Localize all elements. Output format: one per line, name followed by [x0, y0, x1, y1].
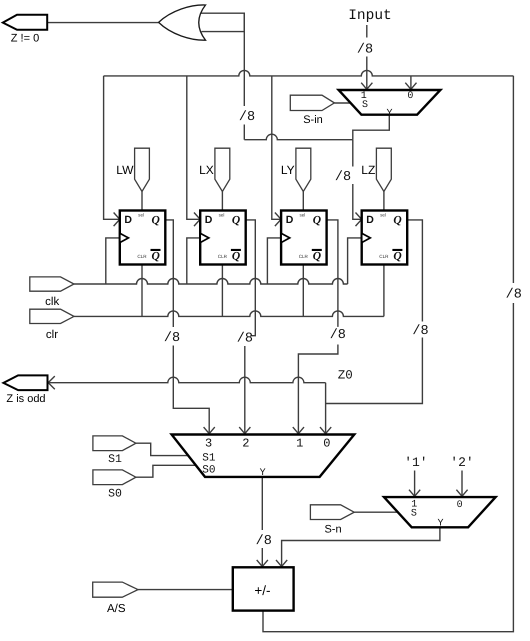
input pin S-in — [290, 95, 334, 126]
svg-text:0: 0 — [457, 500, 463, 511]
wire: S1 select feed — [136, 443, 188, 455]
wire: vertical feedback into OR gate (bus /8), down to node joining mux output — [244, 13, 352, 140]
wire: S0 select feed — [136, 465, 196, 477]
svg-text:2: 2 — [242, 437, 249, 451]
wire: FF3 clock feed — [267, 238, 281, 284]
svg-text:LY: LY — [281, 163, 295, 177]
node Z0 label — [338, 368, 353, 382]
wire: FF4 clock feed — [348, 238, 362, 284]
wire: D feed FF4 (LZ) from mux-output node — [353, 140, 363, 226]
wire: S-in mux output Y down-left to LZ node — [353, 115, 390, 140]
register LX (D flip-flop with load, box) — [200, 211, 246, 265]
wire: FF1 clock feed — [106, 238, 120, 284]
register LX clock wedge — [200, 233, 209, 242]
input pin LZ (load enable) — [361, 148, 391, 191]
wire: D feed FF1 (LW) — [104, 76, 122, 226]
svg-text:Z != 0: Z != 0 — [11, 33, 39, 45]
wire: S-n pin to mux select — [354, 511, 398, 513]
Input port label — [348, 8, 392, 24]
input pin A/S — [93, 582, 138, 615]
input pin S-n — [310, 505, 354, 536]
bus label /8 on FF4 Q — [412, 324, 428, 339]
wire: FF2 clear feed — [221, 265, 223, 317]
bus label /8 on mux output — [256, 534, 272, 549]
svg-text:Q: Q — [232, 215, 240, 227]
wire: n-mux output Y to adder — [276, 527, 440, 568]
wire: clr bus with hops — [74, 311, 384, 316]
wire: A/S pin to adder — [138, 589, 233, 591]
or-gate U1 (8-input NOR-style Z!=0 detector, pointing left) — [159, 5, 206, 40]
bus label /8 on FF2 Q — [237, 332, 253, 347]
svg-text:sel: sel — [219, 213, 225, 218]
svg-text:S1: S1 — [202, 452, 216, 464]
mux U2 (2:1, S-in) trapezoid — [339, 90, 441, 115]
wire: LW pin to register sel input — [141, 192, 143, 211]
svg-text:+/-: +/- — [254, 583, 270, 598]
mux U3 (4:1 register-select) trapezoid — [172, 435, 355, 477]
register LW clock wedge — [120, 233, 129, 242]
svg-text:'2': '2' — [450, 455, 473, 470]
svg-text:Z0: Z0 — [338, 368, 353, 382]
svg-text:Y: Y — [437, 519, 443, 530]
register LX pin labels — [205, 213, 241, 263]
svg-text:/8: /8 — [412, 324, 428, 339]
svg-text:S-n: S-n — [324, 524, 341, 536]
bus label /8 on LZ D feed — [335, 170, 351, 185]
svg-text:Q: Q — [393, 250, 401, 262]
input pin LX (load enable) — [199, 148, 230, 191]
svg-text:S: S — [411, 509, 417, 520]
wire: FF4 Q net (Z0) to Z-is-odd line and mux input 0 — [320, 220, 422, 435]
svg-text:LZ: LZ — [361, 163, 375, 177]
svg-text:clk: clk — [45, 296, 59, 308]
wire: Input pin stub — [366, 25, 368, 38]
wire: D feed FF3 (LY) — [272, 76, 283, 226]
wire: LX pin to register sel input — [221, 192, 223, 211]
svg-text:S: S — [362, 100, 368, 111]
svg-text:LX: LX — [199, 163, 214, 177]
wire: clk bus with hops — [74, 279, 348, 285]
svg-text:Z is odd: Z is odd — [6, 393, 45, 405]
wire: Z != 0 output net (OR gate output to pin) — [47, 22, 158, 24]
svg-text:1: 1 — [296, 437, 303, 451]
wire: FF3 clear feed — [302, 265, 304, 317]
svg-text:S-in: S-in — [303, 114, 323, 126]
svg-text:CLR: CLR — [299, 254, 309, 259]
svg-text:Q: Q — [313, 250, 321, 262]
register LY pin labels — [286, 213, 322, 263]
wire: S-in pin to mux select — [334, 102, 350, 104]
register LW pin labels — [124, 213, 160, 263]
output pin Z != 0 — [3, 15, 47, 45]
wire: FF2 clock feed — [187, 238, 200, 284]
svg-text:0: 0 — [323, 437, 330, 451]
svg-text:/8: /8 — [330, 328, 346, 343]
register LY (D flip-flop with load, box) — [281, 211, 327, 265]
input pin S1 — [93, 436, 136, 466]
svg-text:D: D — [286, 214, 294, 226]
svg-text:LW: LW — [116, 163, 134, 177]
mux U2 pin labels — [361, 91, 414, 119]
svg-text:/8: /8 — [256, 534, 272, 549]
svg-text:clr: clr — [46, 329, 58, 341]
svg-text:A/S: A/S — [107, 603, 126, 615]
input pin S0 — [93, 470, 136, 501]
svg-text:Q: Q — [151, 215, 159, 227]
svg-text:/8: /8 — [237, 332, 253, 347]
svg-text:Input: Input — [348, 8, 392, 24]
register LZ (D flip-flop with load, box) — [362, 211, 408, 265]
wire: FF3 Q net to mux input 1 — [293, 220, 338, 435]
bus label /8 on FF1 Q — [164, 331, 180, 346]
mux U4 pin labels — [411, 500, 463, 530]
constant '1' — [404, 455, 427, 470]
svg-text:CLR: CLR — [137, 254, 147, 259]
svg-text:0: 0 — [407, 91, 413, 102]
svg-text:Y: Y — [260, 468, 266, 479]
wire: FF1 clear feed — [141, 265, 143, 317]
wire: FF2 Q net to mux input 2 — [239, 220, 255, 435]
svg-text:sel: sel — [380, 213, 386, 218]
wire: LZ pin to register sel input — [383, 192, 385, 211]
input pin clk — [30, 277, 74, 308]
svg-text:CLR: CLR — [218, 254, 228, 259]
svg-text:sel: sel — [299, 213, 305, 218]
wire: constant '2' feed — [456, 471, 467, 498]
input pin LY (load enable) — [281, 148, 311, 191]
wire: adder output feedback (bottom and right side) — [263, 76, 513, 632]
wire: Input feed into mux input 1 with arrowhead — [361, 57, 372, 91]
svg-text:/8: /8 — [335, 170, 351, 185]
wire: top distribution line y=76 (+/- result bus) — [104, 70, 514, 75]
svg-text:Q: Q — [151, 250, 159, 262]
svg-text:S0: S0 — [202, 465, 215, 477]
svg-text:/8: /8 — [239, 110, 255, 125]
bus label /8 on OR-gate vertical — [239, 110, 255, 125]
output pin Z is odd — [3, 375, 47, 404]
svg-text:D: D — [124, 214, 132, 226]
wire: Z is odd line with arrowhead into output pin — [47, 376, 326, 389]
svg-text:S0: S0 — [108, 488, 122, 501]
register LZ pin labels — [366, 213, 402, 263]
wire: feedback into S-in mux input 0 with arrowhead — [405, 76, 416, 91]
bus label /8 on FF3 Q — [330, 328, 346, 343]
svg-text:S1: S1 — [108, 453, 122, 466]
svg-text:/8: /8 — [506, 287, 522, 302]
svg-text:3: 3 — [205, 437, 212, 451]
register LZ clock wedge — [362, 233, 371, 242]
register LY clock wedge — [281, 233, 290, 242]
wire: D feed FF2 (LX) — [187, 76, 202, 226]
mux U4 (2:1 increment select, S-n) trapezoid — [384, 497, 496, 527]
svg-text:D: D — [366, 214, 374, 226]
adder/subtractor U5 (+/-) — [233, 567, 294, 610]
register LW (D flip-flop with load, box) — [120, 211, 166, 265]
wire: FF1 Q net to mux input 3 — [165, 220, 215, 435]
input pin clr — [30, 309, 74, 341]
wire: LY pin to register sel input — [302, 192, 304, 211]
svg-text:Q: Q — [313, 215, 321, 227]
svg-text:/8: /8 — [164, 331, 180, 346]
svg-text:sel: sel — [138, 213, 144, 218]
wire: big mux output Y to adder — [257, 477, 268, 568]
mux U3 input labels 3 2 1 0 — [205, 437, 330, 451]
svg-text:'1': '1' — [404, 455, 427, 470]
wire: OR gate input stubs from feedback vertical — [201, 13, 244, 31]
input pin LW (load enable) — [116, 148, 149, 191]
svg-text:CLR: CLR — [379, 254, 389, 259]
bus label /8 on right feedback — [506, 287, 522, 302]
constant '2' — [450, 455, 473, 470]
mux U3 select labels S1 S0 and output Y — [202, 452, 265, 478]
svg-text:D: D — [205, 214, 213, 226]
wire: constant '1' feed — [409, 471, 420, 498]
svg-text:Y: Y — [386, 108, 392, 119]
svg-text:Q: Q — [232, 250, 240, 262]
wire: FF4 clear feed — [383, 265, 385, 317]
bus label /8 under Input — [357, 42, 373, 57]
svg-text:Q: Q — [393, 215, 401, 227]
svg-text:/8: /8 — [357, 42, 373, 57]
